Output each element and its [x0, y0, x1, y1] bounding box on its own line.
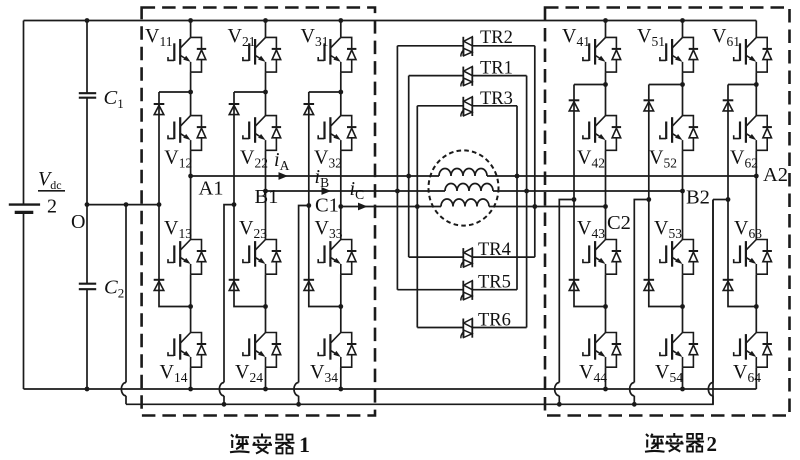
transistor V44: [583, 333, 621, 368]
transistor V13: [168, 240, 206, 275]
clamp diode lower leg V4x: [569, 280, 580, 291]
triac TR6: [461, 319, 472, 339]
winding phase B: [445, 184, 493, 192]
wire triac tap right-B: [526, 76, 528, 328]
triac TR5: [461, 281, 472, 301]
wire neutral tap (hops bus): [555, 197, 577, 404]
node tap C right: [532, 204, 537, 209]
arrow iB: [322, 187, 332, 195]
wire triac tap left-B: [396, 46, 398, 290]
triac TR1: [461, 67, 472, 87]
wire leg 21-column: [265, 21, 267, 390]
clamp diode upper leg V1x: [154, 104, 165, 115]
svg-text:A2: A2: [763, 164, 788, 186]
node tap A right: [515, 174, 520, 179]
wire TR6 line: [417, 327, 526, 329]
node tap C left: [415, 204, 420, 209]
label Vdc/2: [38, 168, 65, 218]
clamp diode lower leg V5x: [644, 280, 655, 291]
transistor V53: [660, 240, 698, 275]
node X1 41: [603, 82, 608, 87]
clamp diode upper leg V4x: [569, 100, 580, 111]
clamp diode upper leg V6x: [723, 100, 734, 111]
svg-text:B1: B1: [255, 186, 279, 208]
wire phase B (B1 to B2): [266, 190, 683, 192]
node X1 51: [680, 82, 685, 87]
inverter 2 dashed box: [545, 8, 790, 416]
node X1 11: [188, 90, 193, 95]
node X2 51: [680, 304, 685, 309]
node X2 21: [263, 304, 268, 309]
transistor V11: [168, 37, 206, 72]
wire neutral tap (hops bus): [630, 197, 652, 404]
clamp diode upper leg V3x: [304, 104, 315, 115]
node X2 61: [754, 304, 759, 309]
node C2: [603, 204, 608, 209]
transistor V24: [243, 333, 281, 368]
node C1: [338, 204, 343, 209]
arrow iA: [279, 172, 289, 180]
transistor V32: [318, 116, 356, 151]
svg-text:TR4: TR4: [478, 240, 511, 260]
wire clamp branch leg V4x: [574, 85, 606, 307]
wire clamp branch leg V6x: [728, 85, 756, 307]
wire TR5 line: [397, 289, 517, 291]
wire neutral tap (hops bus): [294, 203, 311, 404]
svg-text:2: 2: [47, 196, 57, 218]
transistor V61: [734, 37, 772, 72]
clamp diode upper leg V5x: [644, 100, 655, 111]
node X1 21: [263, 90, 268, 95]
wire top DC rail: [24, 20, 757, 22]
svg-text:TR5: TR5: [478, 273, 511, 293]
wire neutral tap (hops bus): [219, 202, 236, 404]
clamp diode upper leg V2x: [229, 104, 240, 115]
wire TR4 line: [409, 256, 535, 258]
transistor V21: [243, 37, 281, 72]
wire triac tap left-C: [416, 106, 418, 328]
node X2 41: [603, 304, 608, 309]
svg-text:TR3: TR3: [480, 89, 513, 109]
battery Vdc/2: [9, 21, 40, 390]
transistor V33: [318, 240, 356, 275]
node X1 61: [754, 82, 759, 87]
caption inverter 2 (ni bian qi 2): [645, 432, 717, 456]
transistor V43: [583, 240, 621, 275]
svg-text:TR6: TR6: [478, 311, 511, 331]
wire neutral tap V6 (hops bus): [708, 197, 730, 404]
clamp diode lower leg V2x: [229, 280, 240, 291]
node tap B left: [395, 189, 400, 194]
node O rail: [85, 202, 162, 207]
wire leg 41-column: [605, 21, 607, 390]
transistor V34: [318, 333, 356, 368]
wire clamp branch leg V1x: [159, 92, 191, 307]
inverter 1 dashed box: [142, 8, 375, 416]
svg-text:C2: C2: [607, 212, 631, 234]
arrow iC: [358, 203, 368, 211]
svg-text:2: 2: [707, 432, 718, 456]
wire leg 11-column: [190, 21, 192, 390]
svg-text:TR1: TR1: [480, 59, 513, 79]
transistor V41: [583, 37, 621, 72]
node tap B right: [524, 189, 529, 194]
capacitor C2: [79, 205, 96, 389]
node B1: [263, 189, 268, 194]
caption inverter 1 (ni bian qi 1): [230, 432, 310, 457]
wire neutral tap down (hops bus): [121, 205, 126, 405]
wire clamp branch leg V5x: [649, 85, 683, 307]
wire leg 51-column: [682, 21, 684, 390]
node A2: [754, 174, 759, 179]
wire phase C (C1 to C2): [341, 206, 606, 208]
wire triac tap left-A: [408, 76, 410, 258]
wire TR1 line: [409, 75, 527, 77]
wire triac tap right-A: [516, 106, 518, 290]
svg-text:TR2: TR2: [480, 28, 513, 48]
wire TR3 line: [417, 105, 517, 107]
transistor V64: [734, 333, 772, 368]
transistor V54: [660, 333, 698, 368]
winding phase C: [441, 199, 489, 206]
transistor V52: [660, 116, 698, 151]
transistor V62: [734, 116, 772, 151]
wire clamp branch leg V2x: [234, 92, 266, 307]
winding phase A: [439, 169, 487, 177]
node bus junctions: [85, 387, 685, 392]
wire TR2 line: [397, 45, 534, 47]
node A1: [188, 174, 193, 179]
wire neutral distribution line: [126, 200, 713, 407]
wire negative DC bus: [24, 388, 757, 390]
svg-text:B2: B2: [686, 187, 710, 209]
wire phase A (A1 to A2): [191, 175, 757, 177]
svg-text:1: 1: [299, 432, 310, 457]
triac TR3: [461, 97, 472, 117]
transistor V12: [168, 116, 206, 151]
wire triac tap right-C: [534, 46, 536, 257]
wire clamp branch leg V3x: [309, 92, 341, 307]
svg-text:O: O: [71, 211, 85, 233]
triac TR2: [461, 37, 472, 57]
capacitor C1: [79, 21, 96, 205]
transistor V42: [583, 116, 621, 151]
clamp diode lower leg V3x: [304, 280, 315, 291]
wire leg 61-column: [755, 21, 757, 390]
node X2 31: [338, 304, 343, 309]
clamp diode lower leg V6x: [723, 280, 734, 291]
svg-text:A1: A1: [199, 178, 224, 200]
node tap A left: [406, 174, 411, 179]
node X1 31: [338, 90, 343, 95]
wire leg 31-column: [340, 21, 342, 390]
node B2: [680, 189, 685, 194]
transistor V51: [660, 37, 698, 72]
motor (dashed circle): [429, 150, 499, 225]
transistor V23: [243, 240, 281, 275]
svg-text:C1: C1: [315, 194, 339, 216]
transistor V63: [734, 240, 772, 275]
transistor V22: [243, 116, 281, 151]
node top rail junctions: [85, 18, 685, 23]
transistor V31: [318, 37, 356, 72]
transistor V14: [168, 333, 206, 368]
clamp diode lower leg V1x: [154, 280, 165, 291]
node X2 11: [188, 304, 193, 309]
triac TR4: [461, 248, 472, 268]
